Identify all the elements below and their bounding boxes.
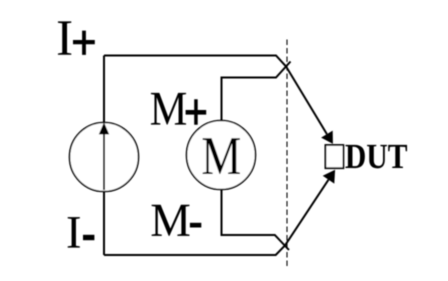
- label I+: [58, 21, 95, 54]
- label DUT: [345, 145, 407, 169]
- arrow lead to DUT bottom terminal: [285, 170, 335, 246]
- DUT body (device under test): [325, 145, 343, 168]
- wire M- sense-low: from meter bottom to junction (overshoots crossing): [222, 190, 290, 250]
- label I-: [68, 217, 95, 247]
- label M+: [151, 93, 206, 125]
- wire left vertical of source loop: [103, 56, 105, 256]
- wire I- force-low: bottom horizontal from source loop to junction: [104, 245, 285, 255]
- wire M+ sense-high: from meter top to junction (overshoots crossing): [222, 62, 291, 121]
- arrow lead to DUT top terminal: [286, 66, 333, 143]
- current source I1: [70, 122, 139, 191]
- meter M (voltmeter): [187, 121, 256, 190]
- wire I+ force-high: top horizontal from source loop to junction: [104, 56, 286, 67]
- label M-: [152, 205, 202, 236]
- dashed line: test fixture boundary: [286, 40, 288, 267]
